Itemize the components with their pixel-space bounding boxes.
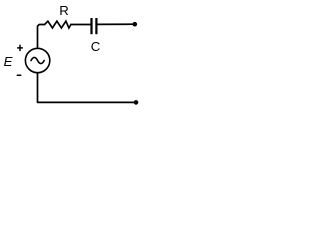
svg-text:E: E [4, 54, 13, 69]
AC source U1 circle [25, 48, 49, 72]
plus polarity mark [18, 45, 23, 50]
node terminal dot top right [133, 22, 138, 27]
AC source sine wave [31, 57, 44, 63]
node terminal dot bottom right [134, 100, 139, 105]
minus polarity mark [17, 74, 20, 76]
capacitor C1 left plate [90, 18, 92, 34]
resistor R1 [45, 21, 71, 28]
capacitor C1 right plate [95, 18, 97, 34]
wire top-left corner to resistor [38, 25, 45, 49]
wire source bottom to bottom rail [38, 73, 135, 103]
wire capacitor to top terminal [98, 23, 134, 25]
wire resistor to capacitor [71, 24, 91, 26]
svg-text:C: C [91, 39, 101, 54]
svg-text:R: R [59, 3, 69, 18]
